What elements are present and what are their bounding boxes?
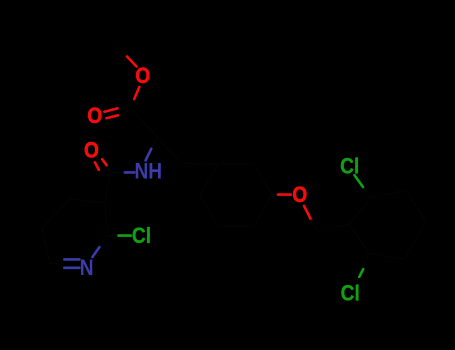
- svg-text:Cl: Cl: [341, 281, 360, 306]
- svg-text:O: O: [87, 104, 102, 129]
- svg-text:Cl: Cl: [132, 224, 151, 249]
- svg-text:Cl: Cl: [340, 154, 359, 179]
- svg-text:O: O: [292, 183, 307, 208]
- svg-text:O: O: [135, 64, 150, 89]
- svg-text:NH: NH: [134, 159, 162, 184]
- svg-text:O: O: [84, 138, 99, 163]
- svg-text:N: N: [80, 256, 94, 281]
